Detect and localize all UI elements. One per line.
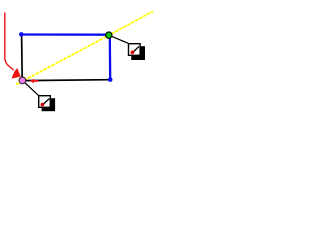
red arrow B (horizontal, points left at pink handle) <box>30 79 39 83</box>
wire: yellow dashed line through handles <box>16 11 153 84</box>
red arrow A (curved, points at pink handle) <box>5 13 21 79</box>
node: blue handle top-left <box>19 32 24 37</box>
node: pink handle bottom-left <box>19 77 26 84</box>
right drag icon <box>129 44 146 60</box>
wire: rectangle bottom edge (black) <box>22 79 110 82</box>
canvas background <box>0 0 158 120</box>
wire: rectangle right edge (blue) <box>109 35 112 80</box>
node: green handle top-right <box>106 32 112 38</box>
wire: black leader from pink handle to bottom icon <box>23 81 39 96</box>
wire: rectangle top edge (blue) <box>21 33 110 36</box>
wire: rectangle left edge (black) <box>21 35 24 81</box>
wire: black leader from green handle to right icon <box>109 35 129 43</box>
bottom drag icon <box>39 96 55 112</box>
node: blue handle bottom-right <box>108 77 113 82</box>
